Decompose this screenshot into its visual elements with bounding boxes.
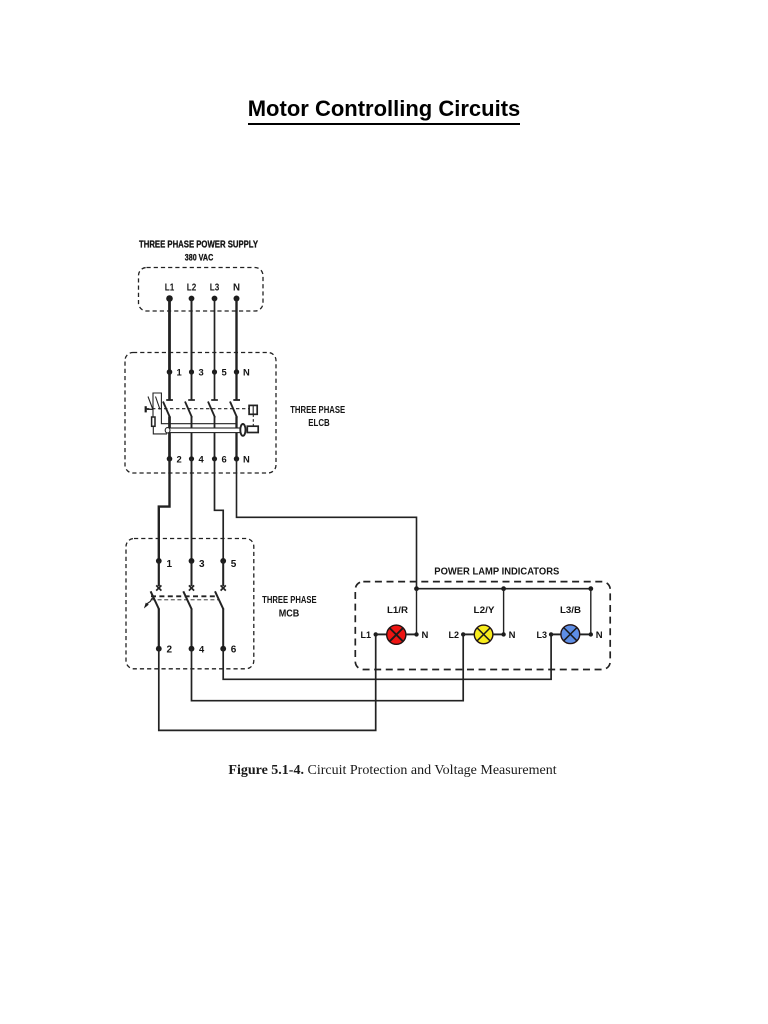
svg-text:5: 5	[222, 367, 227, 378]
ELCB bottom terminal N dot	[234, 456, 239, 461]
lamp 2 N drop wire	[503, 589, 505, 635]
ELCB relay coil box	[247, 426, 258, 432]
svg-text:L1/R: L1/R	[387, 605, 409, 615]
ELCB handle knob	[145, 406, 147, 412]
svg-text:N: N	[233, 282, 240, 293]
MCB pole 2 upper wire	[191, 561, 193, 586]
svg-text:2: 2	[167, 645, 173, 656]
wire L3 supply to ELCB	[214, 299, 216, 373]
MCB terminal 1 dot	[156, 558, 162, 564]
MCB terminal 3 dot	[189, 558, 195, 564]
lamp 1 left terminal dot	[374, 632, 378, 636]
lamp N bus junction dot 1	[414, 586, 419, 591]
terminal L3 dot	[212, 296, 218, 302]
svg-text:3: 3	[199, 559, 205, 570]
lamp 3 left lead	[551, 633, 561, 635]
MCB pole 3 upper wire	[222, 561, 224, 586]
ELCB trip coil lower wire	[153, 426, 167, 434]
svg-text:POWER LAMP INDICATORS: POWER LAMP INDICATORS	[434, 565, 559, 577]
svg-text:L3: L3	[537, 630, 548, 641]
ELCB pole 1 blade	[163, 402, 170, 418]
ELCB terminal 3 dot	[189, 369, 194, 374]
ELCB box	[125, 353, 276, 474]
ELCB trip actuator divider	[252, 405, 254, 414]
svg-text:6: 6	[231, 645, 237, 656]
ELCB trip coil	[152, 417, 155, 426]
lamp N bus junction dot 2	[501, 586, 506, 591]
svg-text:N: N	[243, 453, 250, 464]
MCB bottom terminal 6 dot	[220, 646, 226, 652]
svg-text:N: N	[243, 367, 250, 378]
svg-text:ELCB: ELCB	[308, 418, 330, 429]
ELCB terminal 1 dot	[167, 369, 173, 375]
svg-text:L2: L2	[187, 282, 197, 293]
wire L3 ELCB to MCB	[215, 459, 224, 561]
power lamp indicators box	[355, 582, 610, 670]
wire L2 supply to ELCB	[191, 299, 193, 373]
ELCB bottom terminal 4 dot	[189, 456, 194, 461]
svg-text:L2/Y: L2/Y	[474, 605, 495, 615]
svg-text:N: N	[596, 630, 603, 641]
lamp 2 left terminal dot	[461, 632, 465, 636]
lamp 2 yellow indicator	[474, 625, 493, 644]
MCB pole 1 contact cross	[156, 585, 161, 590]
MCB pole 3 contact cross	[221, 585, 226, 590]
svg-text:L1: L1	[165, 282, 175, 293]
ELCB pole 3 contact bar	[211, 399, 218, 401]
figure caption	[0, 763, 768, 779]
svg-text:1: 1	[167, 559, 173, 570]
MCB pole 1 lower wire	[158, 609, 160, 649]
MCB trip arrow	[147, 598, 154, 604]
lamp 1 right terminal dot	[414, 632, 418, 636]
ELCB terminal N top dot	[234, 369, 239, 374]
MCB pole 3 lower wire	[222, 609, 224, 649]
svg-text:380 VAC: 380 VAC	[185, 252, 214, 262]
lamp 3 left terminal dot	[549, 632, 553, 636]
terminal L1 dot	[166, 295, 173, 302]
MCB mechanical link dashed bold line	[151, 595, 217, 597]
ELCB test contact blade 2	[156, 397, 161, 410]
lamp 2 right lead	[493, 633, 504, 635]
ELCB pole 2 blade	[185, 402, 192, 418]
terminal L2 dot	[189, 296, 195, 302]
svg-text:1: 1	[177, 367, 182, 378]
MCB terminal 5 dot	[220, 558, 226, 564]
lamp 1 left lead	[376, 633, 387, 635]
wire MCB 2 to lamp 1	[159, 634, 376, 730]
title	[0, 96, 768, 125]
svg-text:N: N	[509, 630, 516, 641]
MCB box	[126, 539, 254, 669]
wire N ELCB to lamp bus	[237, 459, 417, 589]
power supply box	[139, 268, 264, 312]
wire L1 supply to ELCB	[168, 299, 171, 373]
MCB pole 2 lower wire	[191, 609, 193, 649]
MCB bottom terminal 4 dot	[189, 646, 195, 652]
svg-text:L1: L1	[361, 630, 372, 641]
wire MCB 4 to lamp 2	[192, 634, 464, 700]
MCB pole 1 upper wire	[158, 561, 160, 586]
terminal N dot	[234, 296, 240, 302]
ELCB mechanical link dashed line	[146, 408, 249, 410]
ELCB trip bar	[167, 428, 241, 433]
ELCB bottom terminal 2 dot	[167, 456, 173, 462]
MCB pole 2 blade	[183, 591, 192, 609]
svg-text:3: 3	[199, 367, 204, 378]
lamp 3 blue indicator	[561, 625, 580, 644]
svg-text:4: 4	[199, 453, 205, 464]
MCB pole 3 blade	[215, 591, 224, 609]
svg-text:THREE PHASE POWER SUPPLY: THREE PHASE POWER SUPPLY	[139, 239, 258, 250]
ELCB pole 3 lower wire	[214, 417, 216, 459]
ELCB terminal 5 dot	[212, 369, 217, 374]
svg-text:4: 4	[199, 644, 205, 655]
ELCB test contact blade 1	[148, 397, 153, 409]
lamp 2 left lead	[463, 633, 474, 635]
svg-text:2: 2	[177, 453, 182, 464]
svg-text:5: 5	[231, 559, 237, 570]
wire N supply to ELCB	[235, 299, 237, 373]
svg-text:MCB: MCB	[279, 609, 300, 620]
wire L1 ELCB to MCB	[159, 459, 170, 561]
ELCB trip actuator box	[249, 405, 257, 414]
wire MCB 6 to lamp 3	[223, 634, 551, 679]
MCB pole 1 blade	[151, 591, 160, 609]
ELCB pole 2 lower wire	[191, 417, 193, 459]
svg-text:6: 6	[222, 453, 227, 464]
ELCB pole 1 contact bar	[166, 399, 173, 401]
ELCB pole 3 blade	[208, 402, 215, 418]
ELCB actuator to relay dashed link	[252, 414, 254, 426]
ELCB pole N contact bar	[233, 399, 240, 401]
lamp 3 right terminal dot	[589, 632, 593, 636]
MCB mechanical link dashed thin line	[151, 599, 218, 601]
lamp 2 right terminal dot	[501, 632, 505, 636]
lamp 1 N drop wire	[416, 589, 418, 635]
svg-text:L3: L3	[210, 282, 220, 293]
ELCB pole N upper wire	[235, 372, 237, 400]
ELCB pole 3 upper wire	[214, 372, 216, 400]
ELCB pole 2 contact bar	[188, 399, 195, 401]
lamp 1 red indicator	[387, 625, 406, 644]
ELCB housing outline	[153, 393, 238, 424]
svg-text:L3/B: L3/B	[560, 605, 582, 615]
wire L2 ELCB to MCB	[191, 459, 193, 561]
lamp 3 right lead	[580, 633, 591, 635]
MCB pole 2 contact cross	[189, 585, 194, 590]
lamp 3 N drop wire	[590, 589, 592, 635]
lamp N bus junction dot 3	[588, 586, 593, 591]
MCB bottom terminal 2 dot	[156, 646, 162, 652]
ELCB pole 2 upper wire	[191, 372, 193, 400]
ELCB pole N blade	[230, 402, 237, 418]
ELCB pole 1 lower wire	[168, 417, 171, 459]
lamp N bus wire	[417, 588, 591, 590]
ELCB handle lever	[147, 408, 153, 410]
ELCB bottom terminal 6 dot	[212, 456, 217, 461]
ELCB trip bar end circle	[165, 428, 170, 433]
svg-text:N: N	[422, 630, 429, 641]
svg-text:THREE PHASE: THREE PHASE	[290, 405, 345, 416]
ELCB current transformer toroid	[240, 424, 245, 436]
ELCB pole 1 upper wire	[168, 372, 171, 400]
ELCB pole N lower wire	[235, 417, 237, 459]
svg-text:L2: L2	[449, 630, 460, 641]
lamp 1 right lead	[406, 633, 417, 635]
svg-text:THREE PHASE: THREE PHASE	[262, 595, 317, 606]
